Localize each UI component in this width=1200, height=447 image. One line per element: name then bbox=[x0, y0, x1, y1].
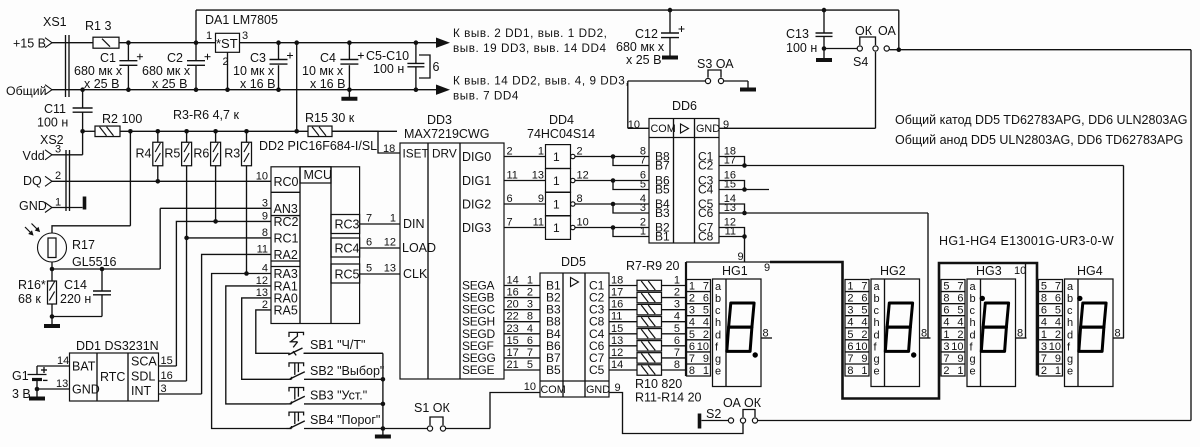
svg-text:17: 17 bbox=[611, 287, 623, 299]
svg-text:х 25 В: х 25 В bbox=[84, 77, 119, 91]
button SB3 "Уст." bbox=[287, 388, 383, 404]
svg-text:e: e bbox=[715, 365, 721, 377]
svg-text:16: 16 bbox=[611, 299, 623, 311]
svg-text:RC2: RC2 bbox=[274, 215, 299, 229]
svg-text:4: 4 bbox=[262, 263, 268, 275]
resistor R2 bbox=[95, 112, 142, 137]
svg-text:RC4: RC4 bbox=[335, 242, 360, 256]
svg-text:DRV: DRV bbox=[432, 147, 457, 161]
svg-text:B5: B5 bbox=[546, 363, 561, 377]
svg-text:R2 100: R2 100 bbox=[102, 112, 142, 126]
svg-text:20: 20 bbox=[507, 299, 519, 311]
wire +5V distribution rail bbox=[83, 40, 397, 133]
svg-text:HG1-HG4 E13001G-UR3-0-W: HG1-HG4 E13001G-UR3-0-W bbox=[939, 234, 1114, 248]
svg-text:R17: R17 bbox=[72, 238, 95, 252]
svg-text:C12: C12 bbox=[635, 27, 658, 41]
svg-text:15: 15 bbox=[507, 335, 519, 347]
wire DD6 pin 12 bbox=[719, 217, 745, 237]
svg-text:6: 6 bbox=[527, 335, 533, 347]
wire SEGB to DD5 bbox=[462, 287, 540, 305]
driver DD5 bbox=[540, 255, 610, 397]
svg-text:3: 3 bbox=[640, 202, 646, 214]
svg-text:2: 2 bbox=[507, 146, 513, 158]
svg-text:6: 6 bbox=[847, 341, 853, 353]
wire RA0 to SB2 bbox=[242, 298, 289, 379]
ground S3 bbox=[740, 81, 756, 90]
svg-text:LOAD: LOAD bbox=[402, 241, 436, 255]
svg-text:DD3: DD3 bbox=[427, 113, 452, 127]
svg-text:680 мк х: 680 мк х bbox=[616, 40, 665, 54]
svg-text:13: 13 bbox=[384, 263, 396, 275]
svg-text:3 В: 3 В bbox=[12, 387, 31, 401]
svg-text:RTC: RTC bbox=[100, 370, 125, 384]
wire DD6 pin 13 bbox=[719, 202, 747, 215]
svg-text:12: 12 bbox=[611, 347, 623, 359]
svg-text:3: 3 bbox=[1041, 341, 1047, 353]
display HG2 bbox=[845, 264, 931, 387]
wire net 9 C7C8 to HG1 bbox=[738, 237, 745, 264]
svg-text:5: 5 bbox=[847, 329, 853, 341]
resistor R16 bbox=[18, 269, 102, 319]
RTC DD1 DS3231N bbox=[56, 339, 173, 401]
wire RA5 to SB1 bbox=[256, 310, 287, 353]
svg-text:RA2: RA2 bbox=[274, 248, 298, 262]
svg-text:5: 5 bbox=[703, 305, 709, 317]
wire SEGG to DD5 bbox=[462, 347, 540, 365]
svg-text:10: 10 bbox=[855, 341, 867, 353]
wire common bus thick bbox=[686, 262, 1037, 399]
svg-text:выв. 19 DD3, выв. 14 DD4: выв. 19 DD3, выв. 14 DD4 bbox=[453, 42, 607, 55]
svg-text:SB1 "Ч/Т": SB1 "Ч/Т" bbox=[310, 338, 365, 352]
svg-text:10 мк х: 10 мк х bbox=[233, 64, 275, 78]
svg-text:DA1 LM7805: DA1 LM7805 bbox=[205, 13, 278, 27]
capacitor C11 bbox=[37, 87, 93, 133]
svg-text:100 н: 100 н bbox=[37, 116, 68, 130]
svg-text:C14: C14 bbox=[64, 278, 87, 292]
wire DD6 pin 11 bbox=[719, 226, 747, 239]
svg-text:ОК: ОК bbox=[855, 24, 873, 38]
svg-text:х 16 В: х 16 В bbox=[240, 77, 275, 91]
svg-text:ОК: ОК bbox=[744, 396, 762, 410]
svg-text:5: 5 bbox=[674, 323, 680, 335]
svg-text:CLK: CLK bbox=[403, 267, 428, 281]
wire RC3 to DIN bbox=[360, 223, 400, 225]
svg-text:DD2 PIC16F684-I/SL: DD2 PIC16F684-I/SL bbox=[259, 139, 377, 153]
svg-text:9: 9 bbox=[957, 353, 963, 365]
wire SEGA to DD5 bbox=[462, 275, 540, 293]
svg-text:14: 14 bbox=[57, 355, 69, 367]
svg-text:14: 14 bbox=[507, 275, 519, 287]
svg-text:3: 3 bbox=[674, 299, 680, 311]
svg-text:1: 1 bbox=[1055, 365, 1061, 377]
svg-text:XS1: XS1 bbox=[43, 15, 67, 29]
svg-text:GND: GND bbox=[586, 384, 610, 396]
svg-text:6: 6 bbox=[861, 293, 867, 305]
svg-text:2: 2 bbox=[1055, 329, 1061, 341]
svg-text:Общий анод DD5 ULN2803AG, DD6: Общий анод DD5 ULN2803AG, DD6 TD62783APG bbox=[895, 133, 1183, 147]
resistor segment R9 bbox=[609, 299, 686, 315]
wire DD6 pin 17 bbox=[719, 155, 747, 168]
svg-text:К выв. 2 DD1, выв. 1 DD2,: К выв. 2 DD1, выв. 1 DD2, bbox=[453, 27, 607, 40]
svg-text:R4: R4 bbox=[136, 147, 152, 161]
inverter DD4.4 bbox=[546, 216, 576, 240]
svg-text:DD1 DS3231N: DD1 DS3231N bbox=[76, 339, 159, 353]
wire RC4 to LOAD bbox=[360, 247, 400, 249]
capacitor C14 bbox=[60, 269, 111, 317]
svg-text:13: 13 bbox=[532, 170, 544, 182]
svg-text:13: 13 bbox=[724, 202, 736, 214]
capacitor C5-C10 bbox=[366, 40, 440, 92]
svg-text:B3: B3 bbox=[655, 206, 670, 220]
svg-text:BAT: BAT bbox=[72, 360, 96, 374]
svg-text:DIG2: DIG2 bbox=[462, 198, 491, 212]
svg-text:17: 17 bbox=[724, 155, 736, 167]
svg-text:18: 18 bbox=[611, 275, 623, 287]
svg-text:h: h bbox=[970, 317, 976, 329]
wire inverter 3 output bbox=[575, 193, 649, 214]
svg-text:6: 6 bbox=[957, 293, 963, 305]
svg-text:SCA: SCA bbox=[131, 355, 157, 369]
svg-text:C5: C5 bbox=[589, 363, 605, 377]
svg-text:B1: B1 bbox=[655, 230, 670, 244]
wire RC1 to SDL bbox=[159, 238, 272, 381]
svg-text:5: 5 bbox=[640, 179, 646, 191]
svg-text:К выв. 14 DD2, выв. 4, 9 DD3,: К выв. 14 DD2, выв. 4, 9 DD3, bbox=[453, 75, 629, 88]
svg-text:d: d bbox=[1067, 329, 1073, 341]
svg-text:a: a bbox=[1067, 281, 1074, 293]
ground XS2 chassis bbox=[52, 197, 85, 210]
svg-text:1: 1 bbox=[553, 198, 560, 212]
label R3-R6 bbox=[173, 108, 239, 122]
svg-text:6: 6 bbox=[943, 305, 949, 317]
svg-text:3: 3 bbox=[943, 341, 949, 353]
svg-text:c: c bbox=[874, 305, 880, 317]
svg-text:1: 1 bbox=[703, 365, 709, 377]
svg-text:4: 4 bbox=[847, 317, 853, 329]
svg-text:COM: COM bbox=[651, 123, 676, 135]
svg-text:х 25 В: х 25 В bbox=[152, 77, 187, 91]
svg-text:х 25 В: х 25 В bbox=[626, 53, 661, 67]
svg-text:RC3: RC3 bbox=[335, 218, 360, 232]
svg-text:SB2 "Выбор": SB2 "Выбор" bbox=[310, 364, 384, 378]
wire DIG0 to inverter bbox=[462, 146, 546, 165]
svg-text:S2: S2 bbox=[706, 407, 721, 421]
svg-text:S1 ОК: S1 ОК bbox=[414, 401, 450, 415]
svg-text:8: 8 bbox=[689, 365, 695, 377]
svg-text:12: 12 bbox=[256, 275, 268, 287]
svg-text:2: 2 bbox=[527, 287, 533, 299]
wire DQ to RC0 bbox=[52, 180, 271, 182]
svg-text:3: 3 bbox=[55, 144, 61, 156]
svg-text:6: 6 bbox=[507, 193, 513, 205]
microcontroller DD2 PIC16F684-I/SL bbox=[256, 139, 396, 324]
svg-text:2: 2 bbox=[262, 299, 268, 311]
svg-text:h: h bbox=[1067, 317, 1073, 329]
svg-text:74HC04S14: 74HC04S14 bbox=[527, 127, 595, 141]
svg-text:18: 18 bbox=[383, 143, 395, 155]
svg-text:a: a bbox=[874, 281, 881, 293]
wire S4 OA to top rail and right bus bbox=[890, 10, 1192, 420]
svg-text:5: 5 bbox=[527, 359, 533, 371]
svg-text:C4: C4 bbox=[698, 183, 714, 197]
svg-text:6: 6 bbox=[1041, 305, 1047, 317]
svg-text:R3: R3 bbox=[224, 147, 240, 161]
svg-text:7: 7 bbox=[847, 353, 853, 365]
svg-text:C3: C3 bbox=[250, 51, 266, 65]
ground G1 bbox=[29, 389, 45, 399]
svg-text:B5: B5 bbox=[655, 183, 670, 197]
svg-text:х 16 В: х 16 В bbox=[310, 77, 345, 91]
inverter DD4.1 bbox=[546, 145, 576, 169]
svg-text:7: 7 bbox=[674, 347, 680, 359]
svg-text:b: b bbox=[874, 293, 880, 305]
capacitor C1 bbox=[74, 40, 143, 92]
svg-text:6: 6 bbox=[366, 237, 372, 249]
wire RA1 to SB3 bbox=[226, 286, 287, 404]
label R10 bbox=[635, 377, 682, 391]
svg-text:4: 4 bbox=[957, 317, 963, 329]
photoresistor R17 GL5516 bbox=[25, 129, 133, 269]
connector XS2 bbox=[19, 133, 70, 213]
svg-text:1: 1 bbox=[206, 30, 212, 42]
resistor segment R12 bbox=[609, 335, 686, 351]
svg-text:GND: GND bbox=[696, 123, 720, 135]
capacitor C2 bbox=[142, 40, 211, 92]
svg-text:a: a bbox=[715, 281, 722, 293]
svg-text:2: 2 bbox=[861, 329, 867, 341]
svg-text:9: 9 bbox=[764, 262, 770, 274]
wire +15V rail bbox=[52, 42, 216, 44]
svg-text:11: 11 bbox=[257, 243, 268, 255]
svg-text:11: 11 bbox=[611, 311, 622, 323]
svg-text:R1 3: R1 3 bbox=[85, 19, 111, 33]
svg-text:12: 12 bbox=[384, 237, 396, 249]
svg-text:8: 8 bbox=[943, 293, 949, 305]
wire RA2 to INT bbox=[159, 254, 272, 394]
svg-text:RA5: RA5 bbox=[274, 303, 298, 317]
svg-text:d: d bbox=[715, 329, 721, 341]
svg-text:R3-R6 4,7 к: R3-R6 4,7 к bbox=[173, 108, 239, 122]
svg-text:3: 3 bbox=[262, 197, 268, 209]
svg-text:e: e bbox=[1067, 365, 1073, 377]
button SB1 Ч/Т bbox=[287, 332, 383, 355]
svg-text:10 мк х: 10 мк х bbox=[302, 64, 344, 78]
svg-text:8: 8 bbox=[847, 365, 853, 377]
svg-text:7: 7 bbox=[957, 281, 963, 293]
svg-text:AN3: AN3 bbox=[274, 202, 298, 216]
svg-text:4: 4 bbox=[1055, 317, 1061, 329]
svg-text:MAX7219CWG: MAX7219CWG bbox=[404, 127, 489, 141]
svg-text:DD5: DD5 bbox=[561, 255, 586, 269]
switch S1 bbox=[383, 401, 490, 431]
svg-text:9: 9 bbox=[538, 193, 544, 205]
svg-text:7: 7 bbox=[527, 347, 533, 359]
svg-text:*ST: *ST bbox=[216, 36, 238, 51]
wire RC5 to CLK bbox=[360, 273, 400, 275]
svg-text:R11-R14 20: R11-R14 20 bbox=[635, 391, 702, 405]
svg-text:8: 8 bbox=[1041, 293, 1047, 305]
resistor R3 bbox=[224, 129, 251, 276]
wire AN3 bbox=[160, 208, 271, 269]
svg-text:RC0: RC0 bbox=[274, 175, 299, 189]
resistor segment R14 bbox=[609, 359, 686, 375]
svg-text:16: 16 bbox=[507, 287, 519, 299]
svg-text:S3 ОА: S3 ОА bbox=[697, 57, 734, 71]
svg-text:15: 15 bbox=[611, 323, 623, 335]
svg-text:1: 1 bbox=[847, 281, 853, 293]
svg-text:1: 1 bbox=[553, 174, 560, 188]
svg-text:c: c bbox=[715, 305, 721, 317]
capacitor C12 bbox=[616, 8, 685, 67]
wire SEGD to DD5 bbox=[462, 323, 540, 341]
svg-text:e: e bbox=[970, 365, 976, 377]
svg-text:7: 7 bbox=[689, 353, 695, 365]
svg-text:9: 9 bbox=[861, 353, 867, 365]
resistor R1 bbox=[85, 19, 119, 48]
capacitor C3 bbox=[233, 40, 293, 92]
wire DD6 pin 15 bbox=[719, 179, 747, 192]
wire DD6 pin 14 bbox=[719, 193, 745, 213]
svg-text:7: 7 bbox=[1055, 281, 1061, 293]
wire DD6 pin 16 bbox=[719, 170, 745, 190]
resistor segment R11 bbox=[609, 323, 686, 339]
wire net C3C4 stub bbox=[745, 189, 770, 191]
svg-text:g: g bbox=[1067, 353, 1073, 365]
svg-text:1: 1 bbox=[1041, 329, 1047, 341]
svg-text:10: 10 bbox=[697, 341, 709, 353]
svg-text:h: h bbox=[874, 317, 880, 329]
svg-text:3: 3 bbox=[242, 30, 248, 42]
svg-text:C1: C1 bbox=[100, 51, 116, 65]
svg-text:1: 1 bbox=[861, 365, 867, 377]
wire net C5C6 to HG2 pin8 bbox=[745, 213, 929, 338]
svg-text:13: 13 bbox=[611, 335, 623, 347]
svg-text:Vdd: Vdd bbox=[23, 149, 45, 163]
svg-text:2: 2 bbox=[689, 293, 695, 305]
wire +5V rail bbox=[279, 42, 449, 44]
svg-text:4: 4 bbox=[689, 317, 695, 329]
wire raw +15 top rail bbox=[196, 10, 899, 43]
voltage regulator DA1 LM7805 bbox=[205, 13, 279, 92]
wire RA3 to SB4 bbox=[212, 274, 287, 429]
note display drivers bbox=[895, 113, 1187, 147]
svg-text:G1: G1 bbox=[12, 369, 29, 383]
svg-text:SDL: SDL bbox=[131, 370, 155, 384]
LED driver DD3 MAX7219CWG bbox=[383, 113, 504, 379]
svg-text:1: 1 bbox=[538, 146, 544, 158]
inverter DD4 74HC04S14 bbox=[527, 113, 595, 141]
svg-text:C6: C6 bbox=[698, 206, 714, 220]
wire DIG3 to inverter bbox=[462, 217, 546, 236]
svg-text:9: 9 bbox=[723, 119, 729, 131]
battery G1 bbox=[12, 366, 70, 401]
svg-text:16: 16 bbox=[161, 370, 173, 382]
ground bbox=[341, 90, 357, 99]
svg-text:R16*: R16* bbox=[18, 278, 46, 292]
button SB2 "Выбор" bbox=[289, 363, 384, 379]
svg-text:1: 1 bbox=[674, 275, 680, 287]
svg-text:6: 6 bbox=[1055, 293, 1061, 305]
svg-text:1: 1 bbox=[957, 365, 963, 377]
svg-text:a: a bbox=[970, 281, 977, 293]
resistor segment R13 bbox=[609, 347, 686, 363]
svg-text:g: g bbox=[874, 353, 880, 365]
svg-text:5: 5 bbox=[943, 281, 949, 293]
svg-text:17: 17 bbox=[507, 347, 519, 359]
svg-text:Общий катод DD5 TD62783APG, D: Общий катод DD5 TD62783APG, DD6 ULN2803A… bbox=[895, 113, 1187, 127]
svg-text:7: 7 bbox=[861, 281, 867, 293]
wire net C1C2 to HG4 pin8 bbox=[745, 166, 1124, 339]
svg-text:GND: GND bbox=[19, 199, 47, 213]
svg-text:C11: C11 bbox=[44, 102, 66, 116]
svg-text:HG2: HG2 bbox=[880, 264, 906, 278]
svg-text:4: 4 bbox=[527, 323, 533, 335]
inverter DD4.2 bbox=[546, 169, 576, 193]
node AN3 divider bbox=[50, 267, 161, 272]
svg-text:+15 В: +15 В bbox=[13, 37, 46, 51]
svg-text:7: 7 bbox=[703, 281, 709, 293]
resistor R6 bbox=[193, 129, 220, 224]
svg-text:INT: INT bbox=[131, 384, 152, 398]
svg-text:b: b bbox=[970, 293, 976, 305]
svg-text:b: b bbox=[715, 293, 721, 305]
svg-text:R7-R9 20: R7-R9 20 bbox=[626, 259, 680, 273]
label R11-R14 bbox=[635, 391, 702, 405]
ground button bus bbox=[375, 429, 391, 437]
svg-text:1: 1 bbox=[527, 275, 533, 287]
svg-text:MCU: MCU bbox=[304, 168, 332, 182]
wire S1 to DD5 COM bbox=[490, 381, 540, 429]
svg-text:2: 2 bbox=[957, 329, 963, 341]
svg-text:23: 23 bbox=[507, 323, 519, 335]
svg-text:c: c bbox=[1067, 305, 1073, 317]
svg-text:12: 12 bbox=[577, 170, 589, 182]
svg-text:6: 6 bbox=[433, 60, 440, 74]
wire SEGE to DD5 bbox=[462, 359, 540, 377]
ground R16 bbox=[44, 317, 60, 327]
svg-text:9: 9 bbox=[738, 251, 744, 263]
svg-text:1: 1 bbox=[689, 281, 695, 293]
resistor R5 bbox=[164, 129, 191, 240]
wire RC2 to SCA bbox=[159, 221, 272, 366]
display HG1 bbox=[686, 262, 772, 387]
svg-text:9: 9 bbox=[262, 210, 268, 222]
svg-text:5: 5 bbox=[1041, 281, 1047, 293]
svg-text:HG4: HG4 bbox=[1077, 264, 1103, 278]
wire inverter 2 output bbox=[575, 170, 649, 191]
svg-text:7: 7 bbox=[507, 217, 513, 229]
svg-text:b: b bbox=[1067, 293, 1073, 305]
svg-text:4: 4 bbox=[861, 317, 867, 329]
svg-text:220 н: 220 н bbox=[60, 292, 91, 306]
svg-text:10: 10 bbox=[524, 381, 536, 393]
svg-text:11: 11 bbox=[507, 170, 518, 182]
svg-text:68 к: 68 к bbox=[18, 292, 41, 306]
svg-text:B7: B7 bbox=[655, 159, 670, 173]
wire DIG2 to inverter bbox=[462, 193, 546, 212]
svg-text:10: 10 bbox=[951, 341, 963, 353]
wire DD5 GND to S2 bbox=[609, 382, 743, 434]
svg-text:5: 5 bbox=[689, 329, 695, 341]
wire DD6 pin 18 bbox=[719, 146, 745, 166]
svg-text:100 н: 100 н bbox=[373, 62, 404, 76]
capacitor C4 bbox=[302, 40, 364, 92]
svg-text:COM: COM bbox=[541, 384, 566, 396]
svg-text:2: 2 bbox=[577, 146, 583, 158]
svg-text:680 мк х: 680 мк х bbox=[74, 64, 123, 78]
svg-text:13: 13 bbox=[56, 378, 68, 390]
svg-text:7: 7 bbox=[366, 213, 372, 225]
